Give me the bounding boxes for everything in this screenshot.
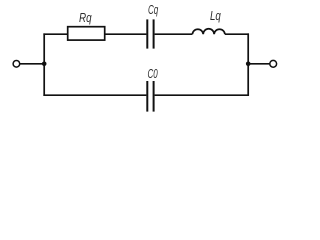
svg-text:Cq: Cq (148, 3, 158, 17)
wire capacitor C0 to right bus (155, 94, 249, 96)
capacitor C0 (plates) (146, 81, 148, 112)
terminal left (13, 61, 20, 68)
wire right bus vertical (247, 33, 249, 96)
svg-text:C0: C0 (148, 67, 158, 81)
node B (right junction) (246, 62, 251, 67)
wire resistor to capacitor Cq (105, 33, 147, 35)
inductor Lq (3 arcs) (192, 29, 225, 34)
capacitor Cq (plates) (146, 19, 148, 48)
terminal right (270, 60, 277, 67)
wire left bus vertical (43, 33, 45, 96)
wire bottom from left bus to capacitor C0 (43, 94, 146, 96)
wire left terminal to node A (20, 63, 44, 65)
wire top from left bus to resistor (43, 33, 67, 35)
svg-text:Rq: Rq (79, 11, 92, 25)
wire capacitor Cq to inductor (155, 33, 193, 35)
svg-text:Lq: Lq (210, 9, 221, 23)
node A (left junction) (42, 62, 47, 67)
wire inductor to right bus (225, 33, 249, 35)
wire node B to right terminal (248, 63, 269, 65)
resistor Rq (68, 27, 105, 40)
